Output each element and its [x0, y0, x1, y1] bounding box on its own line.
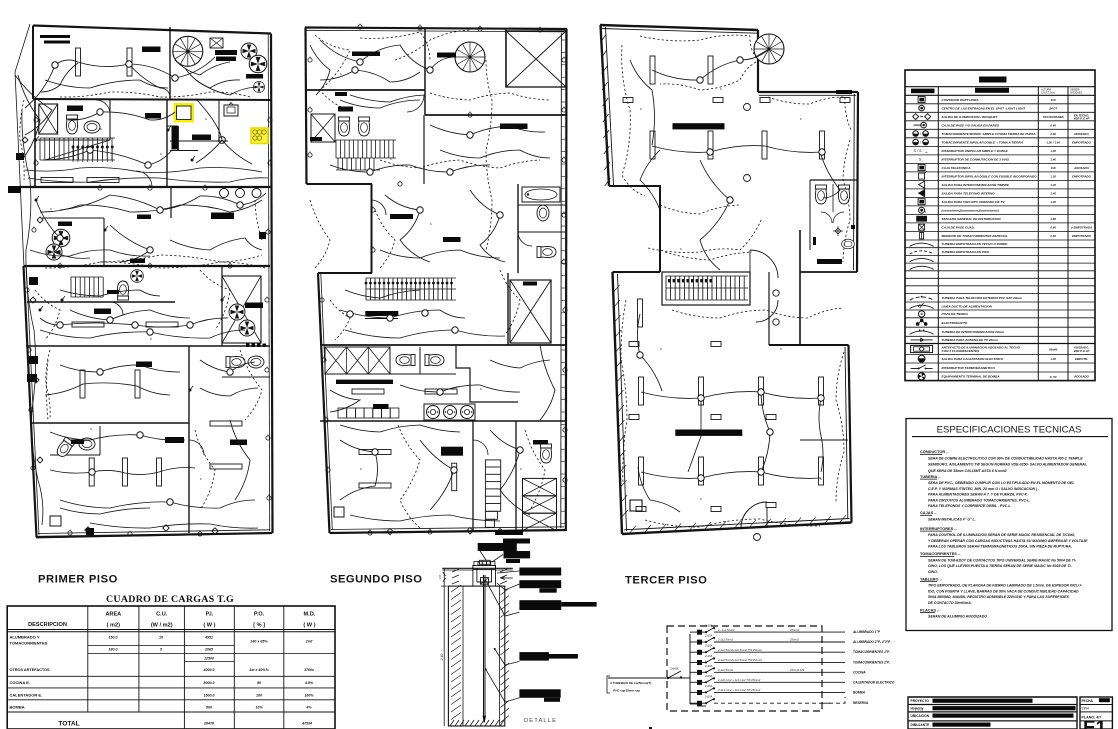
small rect bottom-left P1 — [50, 516, 61, 526]
svg-text:CALENTADOR E.: CALENTADOR E. — [10, 693, 43, 698]
legend row: LINEA DUCTO DE ALIMENTACION — [905, 309, 1095, 311]
columns circles P1 — [220, 189, 229, 198]
svg-text:TECHO/PARED: TECHO/PARED — [1043, 115, 1064, 119]
svg-text:2-1x2.5mm2+1x2.5mm2 TW 25mm2: 2-1x2.5mm2+1x2.5mm2 TW 25mm2 — [717, 648, 762, 652]
conduit wire P2-22 — [350, 515, 500, 521]
lamp P1-6 — [157, 458, 162, 486]
conduit wire P2-6 — [470, 190, 505, 262]
leader r1 — [497, 571, 519, 573]
svg-text:S: S — [340, 72, 342, 76]
legend table frame — [905, 70, 1095, 381]
svg-text:TUBERIA PARA TELEFONO EXTERNO: TUBERIA PARA TELEFONO EXTERNO PVC SAP 20… — [942, 296, 1023, 300]
riser branch CALENTADOR ELECTRICO — [697, 680, 702, 685]
text label bar P1-18 — [165, 437, 184, 443]
svg-text:S: S — [150, 337, 152, 341]
legend row: TUBERIA PARA TELEFONO EXTERNO — [905, 301, 1095, 303]
svg-text:180.0: 180.0 — [109, 648, 118, 652]
lower block bottom P3 — [622, 523, 852, 535]
open square P3 bottom-left — [630, 500, 642, 511]
lamp P1-4 — [89, 458, 94, 486]
outer wall left upper P1 — [32, 26, 34, 100]
conduit dashed P2-2 — [430, 93, 550, 100]
legend row: SALIDA PARA CALENTADOR ELECTRI — [905, 362, 1095, 364]
svg-text:TOMACORRIENTE BIPOLAR DOBLE +: TOMACORRIENTE BIPOLAR DOBLE + TOMA A TIE… — [942, 140, 1024, 144]
left wall outlet boxes P1 — [16, 153, 24, 160]
conduit wire P2-2 — [340, 100, 420, 108]
label bar r1 — [519, 568, 561, 576]
conduit wire P2-12 — [420, 440, 454, 510]
svg-text:SALIDA PARA INTERCOMUNICADOR: SALIDA PARA INTERCOMUNICADOR TIMBRE — [942, 183, 1010, 187]
conduit dashed P2-6 — [500, 270, 520, 335]
svg-text:1500.0: 1500.0 — [204, 694, 215, 698]
cuadro column lines — [87, 606, 89, 712]
sink kitchenette P1 — [224, 105, 238, 116]
feeder switch — [668, 671, 681, 678]
conduit wire P3-12 — [640, 150, 660, 210]
conduit dashed P1-6 — [35, 290, 60, 340]
conduit wire P1-19 — [196, 80, 258, 95]
svg-text:CONTADOR WATT-HORA: CONTADOR WATT-HORA — [942, 98, 980, 102]
outer wall right upper P3 — [857, 92, 858, 272]
svg-text:VACIONES: VACIONES — [1070, 92, 1083, 95]
conduit wire P3-6 — [641, 472, 821, 479]
outer wall bottom P1 — [37, 533, 273, 537]
riser branch TOMACORRIENTES 2°P. — [697, 660, 702, 665]
svg-text:2x15A: 2x15A — [704, 634, 713, 638]
conduit wire P1-21 — [129, 64, 170, 95]
underline P2 stair label — [365, 318, 398, 320]
door arc b P2 — [372, 200, 387, 215]
svg-text:S: S — [50, 207, 52, 211]
text label bar P1-16 — [136, 362, 152, 368]
conduit dashed P3-7 — [672, 308, 843, 318]
wall y186 step P3 — [609, 185, 661, 187]
door arc b P1 — [136, 171, 152, 187]
black blob cocina P2 — [441, 447, 463, 456]
bath flower mark P3 — [833, 226, 843, 236]
partition x424 lower P2 — [423, 115, 425, 184]
svg-text:1.30: 1.30 — [1050, 174, 1056, 178]
legend row: SALIDA DE ILUMINACION / B — [905, 120, 1095, 122]
svg-text:TOMACORRIENTE MONOF. SIMPLE C/: TOMACORRIENTE MONOF. SIMPLE C/TOMA TIERR… — [942, 132, 1037, 136]
svg-text:DETALLE: DETALLE — [524, 718, 557, 724]
text label bar P2-11 — [335, 92, 347, 96]
partition y375 P2 — [325, 373, 456, 375]
outer wall top P1 — [33, 26, 271, 34]
wall y272 P3 — [800, 271, 857, 273]
svg-text:C.U.: C.U. — [156, 612, 168, 618]
detail inner shaft — [462, 586, 464, 726]
svg-text:PARA CIRCUITOS ALUMBRADO TOM: PARA CIRCUITOS ALUMBRADO TOMACORRIENTES,… — [928, 498, 1030, 502]
svg-text:SEMIDURO, AISLAMIENTO TW SEGU: SEMIDURO, AISLAMIENTO TW SEGUN NORMAS VD… — [928, 463, 1087, 467]
conduit dashed P3-4 — [843, 140, 850, 262]
door arc a P1 — [96, 100, 110, 114]
small dot below — [649, 727, 652, 729]
svg-text:EMPOTRADO: EMPOTRADO — [1072, 140, 1092, 144]
lampH rows mid P1 — [41, 178, 73, 183]
detail chimney — [480, 560, 491, 564]
svg-text:1st x 40%%: 1st x 40%% — [249, 668, 269, 672]
svg-text:S: S — [390, 157, 392, 161]
wall y90 P2 — [306, 89, 425, 91]
text label bar P2-10 — [310, 137, 322, 141]
svg-text:2-1x2.5mm2: 2-1x2.5mm2 — [717, 668, 733, 672]
text label bar P2-7 — [523, 282, 537, 286]
conduit wire P3-1 — [630, 60, 655, 145]
svg-text:CONDUCTOR .-: CONDUCTOR .- — [920, 449, 949, 454]
svg-text:( m2): ( m2) — [107, 623, 121, 629]
conduit wire P1-14 — [50, 468, 195, 475]
right ext top P3 — [769, 344, 849, 346]
stair run 2 P1 (lower block) — [71, 277, 103, 297]
svg-text:( W ): ( W ) — [303, 623, 315, 629]
conduit wire P2-1 — [320, 70, 420, 82]
text label bar P2-2 — [338, 107, 353, 112]
svg-text:RESERVA: RESERVA — [853, 701, 869, 705]
svg-text:60x60: 60x60 — [1049, 347, 1057, 351]
wall y273 P2 — [318, 272, 372, 274]
conduit wire P2-8 — [345, 330, 505, 338]
svg-text:25mm2: 25mm2 — [789, 638, 799, 642]
svg-text:4.9%: 4.9% — [304, 681, 314, 685]
svg-text:CINO, LOS QUE LLEVEN PUESTA A: CINO, LOS QUE LLEVEN PUESTA A TIERRA SER… — [928, 564, 1072, 568]
svg-text:1.40: 1.40 — [1050, 157, 1056, 161]
lower block left slant inner P3 — [618, 274, 627, 531]
svg-text:CAJA TELEFONICA: CAJA TELEFONICA — [942, 166, 972, 170]
partition x170 upper P1 — [169, 27, 171, 100]
wall y422 lower P1 — [30, 422, 189, 424]
wall x508 P2 — [507, 273, 509, 345]
wall hatch bottom P3 — [630, 515, 846, 533]
bath upper P2: wc pair — [338, 117, 349, 136]
conduit dashed P2-3 — [380, 160, 540, 168]
svg-text:ALUMBRADO 2°P- 4°3°P.: ALUMBRADO 2°P- 4°3°P. — [852, 640, 891, 644]
svg-text:INTERRUPTORES .-: INTERRUPTORES .- — [920, 526, 957, 531]
svg-text:S: S — [720, 87, 722, 91]
reserva drop — [822, 697, 845, 703]
text label bar P1-4 — [216, 57, 236, 62]
svg-text:VER P. E 4P: VER P. E 4P — [1074, 349, 1090, 353]
corridor circles P3 — [744, 104, 751, 111]
svg-text:TOMACORRIENTES 1°P.: TOMACORRIENTES 1°P. — [853, 650, 890, 654]
door arc c P1 — [189, 440, 204, 455]
legend row: CENTRO DE LAS ENTRADAS EN EL — [905, 111, 1095, 113]
conduit wire P2-9 — [330, 390, 360, 412]
partition x506 P2 — [505, 29, 507, 87]
conduit wire P2-21 — [340, 425, 460, 432]
detail bottom hatch — [450, 720, 504, 726]
conduit wire P2-17 — [440, 150, 550, 158]
conduit wire P1-6 — [36, 200, 90, 258]
left edge diamonds P1 — [22, 137, 28, 143]
svg-text:[ % ]: [ % ] — [253, 623, 265, 629]
text label bar P1-8 — [192, 135, 211, 141]
svg-text:1.20 / 1.40: 1.20 / 1.40 — [1046, 140, 1060, 144]
xbox row wc P2 — [325, 347, 390, 374]
svg-text:0.8: 0.8 — [438, 575, 442, 579]
svg-text:OTROS ARTEFACTOS: OTROS ARTEFACTOS — [10, 668, 51, 672]
text label bar P1-17 — [71, 440, 84, 445]
conduit dashed P1-3 — [240, 350, 262, 420]
outer wall right P1 — [271, 34, 273, 534]
conduit wire P3-11 — [820, 152, 840, 198]
svg-text:SALIDA PARA CALENTADOR ELECTRI: SALIDA PARA CALENTADOR ELECTRICO — [942, 357, 1004, 361]
conduit wire P3-9 — [819, 399, 823, 472]
svg-text:2-1x2.5mm2+1x2.5mm2 TW 25mm2: 2-1x2.5mm2+1x2.5mm2 TW 25mm2 — [717, 658, 762, 662]
partition x222 P1 — [221, 266, 223, 346]
svg-text:S.N.P.T. N.M.: S.N.P.T. N.M. — [1041, 92, 1056, 95]
conduit wire P3-7 — [761, 393, 770, 472]
conduit wire P3-3 — [700, 160, 730, 270]
conduit wire P2-15 — [310, 45, 330, 95]
text label bar P2-8 — [373, 404, 389, 409]
legend title bar — [979, 77, 1007, 83]
text label bar P2-3 — [500, 124, 528, 130]
svg-text:SALIDA PARA CIRCUITO CERRADO D: SALIDA PARA CIRCUITO CERRADO DE TV — [942, 200, 1006, 204]
wc mid bath P1 — [117, 281, 128, 300]
svg-text:2x15A: 2x15A — [704, 654, 713, 658]
wc lower-right P2 — [540, 444, 551, 463]
lamp P1-2 — [80, 370, 85, 398]
junction circles P2 — [357, 59, 363, 65]
svg-text:SERA DE PVC-, DEBIENDO CUMPLI: SERA DE PVC-, DEBIENDO CUMPLIR CON LO ES… — [928, 481, 1075, 485]
outer wall right P2 — [565, 29, 568, 531]
svg-text:S: S — [205, 117, 207, 121]
svg-text:2-1x6 mm2 + 1x4 mm2 TW 2: 2-1x6 mm2 + 1x4 mm2 TW 25mm2 — [717, 678, 761, 682]
label bar r4 — [519, 652, 549, 661]
svg-text:TABLERO GENERAL DE DISTRIBUCIO: TABLERO GENERAL DE DISTRIBUCION — [942, 217, 1002, 221]
leader r4 dot — [494, 648, 496, 650]
conduit wire P3-8 — [688, 398, 701, 472]
conduit wire P1-9 — [70, 310, 190, 320]
site boundary line P1 — [15, 24, 273, 538]
spiral stair P1 — [173, 36, 203, 66]
lower block top P3 — [613, 271, 661, 273]
conduit wire P1-22 — [185, 68, 240, 88]
svg-text:DIBUJANTE: DIBUJANTE — [911, 723, 931, 727]
lamp P1-5 — [123, 458, 128, 486]
bath upper right P3 — [810, 179, 857, 181]
text label bar P1-20 — [107, 290, 119, 294]
wall x758 P3 — [757, 30, 759, 92]
conduit wire P1-10 — [40, 330, 245, 338]
fan b P1 — [249, 55, 267, 73]
wall outlet circles P1 — [34, 118, 38, 122]
junction circles P3 — [697, 77, 703, 83]
wall y421 P2 — [320, 420, 566, 422]
kitchen walls y141/y150 P1 — [170, 140, 228, 142]
wc P2 bath — [537, 246, 556, 257]
svg-text:2.40: 2.40 — [440, 654, 444, 662]
svg-text:SEGUNDO PISO: SEGUNDO PISO — [330, 574, 422, 586]
svg-text:PVC-sap35mm-sap: PVC-sap35mm-sap — [613, 689, 640, 693]
conduit wire P1-25 — [170, 238, 262, 250]
bath door arcs P3 — [821, 212, 832, 223]
conduit wire P3-2 — [652, 146, 822, 153]
feeder line — [608, 677, 690, 679]
svg-text:500: 500 — [206, 706, 212, 710]
xbox right P2 — [510, 280, 551, 343]
wall y345 P2 — [320, 344, 566, 346]
conduit dashed P2-8 — [330, 300, 350, 340]
riser bus — [689, 634, 691, 704]
sink lowleft bath P1 — [79, 438, 95, 450]
svg-text:( W ): ( W ) — [203, 623, 215, 629]
window wall right P2 — [560, 33, 563, 528]
legend row: CONTADOR WATT-HORA — [905, 103, 1095, 105]
door arc a P2 — [407, 95, 424, 112]
conduit dashed P2-1 — [360, 32, 430, 60]
svg-text:BOMBA: BOMBA — [853, 690, 866, 694]
partition x425 P2 — [424, 28, 426, 115]
svg-text:2x60A: 2x60A — [669, 667, 679, 671]
riser branch ALUMBRADO 1°P — [697, 630, 702, 635]
especificaciones tecnicas box — [906, 419, 1112, 631]
sink right bath P1 — [248, 356, 264, 368]
svg-text:TOMACORRIENTES .-: TOMACORRIENTES .- — [920, 551, 961, 556]
svg-text:S: S — [360, 467, 362, 471]
svg-text:1.80: 1.80 — [1050, 217, 1056, 221]
svg-text:INTERRUPTOR UNIPOLAR SIMPLE Y: INTERRUPTOR UNIPOLAR SIMPLE Y DOBLE — [942, 149, 1009, 153]
yellow highlight box P1 — [175, 105, 193, 122]
svg-text:Y DEBERAN OPERAR CON CARGAS IN: Y DEBERAN OPERAR CON CARGAS INDUCTIVAS H… — [928, 539, 1088, 543]
riser branch BOMBA — [697, 690, 702, 695]
svg-text:0.40: 0.40 — [1050, 132, 1056, 136]
wall y266 P1 — [24, 265, 271, 267]
small sq P2 — [334, 507, 344, 517]
detail top label bars — [478, 543, 517, 551]
wall y346 lower P1 — [26, 345, 270, 347]
rod clamp — [481, 578, 489, 585]
conduit wire P2-4 — [330, 165, 490, 172]
conduit wire P1-27 — [200, 388, 258, 396]
lamp P3-l7 — [759, 457, 764, 485]
legend row: TOMACORRIENTE BIPOLAR DOBLE + — [905, 145, 1095, 147]
svg-text:100: 100 — [256, 694, 262, 698]
fan g xroom P1 — [229, 304, 245, 320]
leader r5 dot — [485, 668, 487, 670]
lower block right inner P3 — [845, 347, 848, 519]
conduit wire P1-17 — [200, 360, 255, 372]
svg-text:1.40: 1.40 — [1050, 192, 1056, 196]
entrance circle P3 — [754, 534, 761, 541]
detail leader top — [480, 551, 486, 560]
lamp P1-1 — [127, 48, 132, 76]
conduit dashed P2-5 — [375, 210, 395, 268]
lamp P3-l1 — [639, 377, 644, 405]
svg-text:2x15A: 2x15A — [704, 644, 713, 648]
text label bar P1-14 — [94, 309, 111, 315]
lower block right P3 — [849, 345, 852, 523]
svg-text:SERA DE COBRE ELECTROLITICO CO: SERA DE COBRE ELECTROLITICO CON 99% DE C… — [928, 456, 1083, 460]
door arc c P2 — [518, 232, 532, 246]
stair enclosure P3 — [662, 272, 750, 305]
svg-text:CAJAS .-: CAJAS .- — [920, 510, 937, 515]
svg-text:25mm2 C/S: 25mm2 C/S — [789, 668, 804, 672]
fan h xroom P1 — [239, 320, 255, 336]
legend row: MEDIDOR DE TOMACORRIENTES ESPE — [905, 239, 1095, 241]
conduit wire P2-13 — [490, 430, 530, 515]
roof xbox P2 — [506, 31, 566, 87]
wall outlet circles P2 — [308, 58, 312, 62]
small sq scatter P3 lower — [629, 342, 639, 347]
outer wall top inner P2 — [306, 30, 564, 32]
svg-text:UBICACION: UBICACION — [911, 714, 930, 718]
legend row: (conexiones)(conexiones)(conex — [905, 213, 1095, 215]
legend row: TUBERIA EMPOTRADA EN TECHO O P — [905, 247, 1095, 249]
lower block left slant P3 — [613, 272, 623, 534]
outer wall bottom inner P2 — [331, 527, 564, 530]
svg-text:1.40: 1.40 — [1050, 183, 1056, 187]
conduit dashed P3-1 — [622, 45, 645, 196]
conduit wire P1-11 — [60, 365, 180, 372]
svg-text:CAJA DE PASE Y/O SALIDA EN PAR: CAJA DE PASE Y/O SALIDA EN PARED — [942, 123, 1000, 127]
legend row: ARTEFACTO DE ILUMINACION ADOSA — [905, 354, 1095, 356]
conduit dashed P1-0 — [60, 92, 250, 97]
text label bar P1-12 — [211, 213, 234, 220]
svg-text:0.40: 0.40 — [1050, 226, 1056, 230]
svg-text:S / S: S / S — [914, 149, 922, 153]
conduit wire P2-3 — [430, 125, 545, 135]
svg-text:S: S — [780, 347, 782, 351]
leader r2 arrow — [501, 577, 513, 579]
dimension line left — [443, 568, 445, 726]
fan d P1 — [52, 229, 70, 247]
lamp P3-u0 — [650, 56, 655, 84]
conduit wire P1-4 — [25, 168, 262, 173]
svg-text:2x15A: 2x15A — [704, 674, 713, 678]
vent squares right bath P1 — [246, 344, 250, 348]
conduit dashed P3-6 — [648, 218, 762, 253]
legend row: SALIDA PARA CIRCUITO CERRADO D — [905, 205, 1095, 207]
conduit wire P1-26 — [60, 290, 160, 296]
partition x219 P1 — [218, 100, 220, 141]
conduit dashed P1-8 — [195, 430, 215, 510]
lamp P3-l0 — [638, 299, 643, 327]
text label bar P2-1 — [437, 53, 456, 58]
leader r4 — [495, 649, 520, 665]
svg-text:TUBERIA .-: TUBERIA .- — [920, 474, 941, 479]
lamp P3-l3 — [759, 377, 764, 405]
svg-text:1.40: 1.40 — [1050, 200, 1056, 204]
counter top-right P1 — [210, 38, 223, 48]
svg-text:S: S — [200, 477, 202, 481]
outer wall bottom P2 — [330, 530, 567, 533]
conduit dashed P3-2 — [660, 205, 740, 214]
svg-text:150.0: 150.0 — [109, 636, 118, 640]
lamp P3-u2 — [650, 131, 655, 159]
stair handrail arrows P1 — [72, 146, 113, 162]
conduit wire P1-28 — [60, 508, 150, 514]
legend row: TUBERIA DE INTERCOMUNICADOR 2 — [905, 335, 1095, 337]
riser branch COCINA — [697, 670, 702, 675]
svg-text:2mf: 2mf — [305, 640, 313, 644]
svg-text:TABLERO .-: TABLERO .- — [920, 576, 943, 581]
wall hatch left upper P3 — [601, 34, 611, 186]
lamp P1-3 — [135, 370, 140, 398]
svg-text:2x15A: 2x15A — [704, 695, 713, 699]
wall y184 P2 — [307, 183, 373, 185]
text label bar P1-10 — [58, 222, 72, 227]
svg-text:S: S — [700, 497, 702, 501]
conduit wire P1-13 — [50, 432, 185, 440]
conduit wire P2-14 — [540, 345, 555, 420]
stair run 1 P1 — [40, 138, 115, 160]
conduit wire P2-10 — [400, 385, 520, 392]
svg-text:S: S — [520, 467, 522, 471]
svg-text:PLACAS .-: PLACAS .- — [920, 607, 940, 612]
svg-text:2x15A: 2x15A — [704, 624, 713, 628]
